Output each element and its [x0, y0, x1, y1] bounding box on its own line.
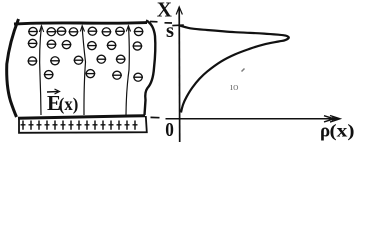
rho axis arrowhead [324, 116, 340, 123]
faint mark apostrophe [242, 69, 245, 72]
arrowhead field line 3 [126, 26, 130, 32]
dash top right of slab [150, 21, 158, 23]
charges row 3 [28, 55, 126, 65]
X axis (vertical) [178, 8, 181, 142]
label E(x) [47, 89, 78, 115]
svg-text:ıο: ıο [230, 81, 239, 93]
dash bottom right of slab [151, 116, 160, 118]
svg-text:s: s [166, 18, 174, 42]
plus strip border [19, 116, 147, 133]
plus charges [21, 121, 138, 130]
dash 2 top near s [165, 22, 173, 24]
charges row 2 [28, 39, 143, 50]
field line 3 [126, 26, 129, 116]
rho axis (horizontal) [166, 118, 337, 120]
arrowhead field line 2 [80, 26, 84, 32]
svg-text:0: 0 [165, 119, 174, 141]
slab right edge [145, 21, 156, 116]
slab left edge [7, 19, 19, 117]
slab top edge [14, 23, 147, 24]
svg-text:(x): (x) [330, 121, 355, 141]
charges row 4 [44, 70, 143, 82]
curve rho of x [180, 26, 289, 113]
slab bottom edge [18, 116, 145, 119]
X axis arrowhead [176, 7, 182, 15]
charges row 1 [28, 27, 143, 36]
svg-text:(x): (x) [59, 94, 79, 114]
tick s level [172, 24, 184, 27]
arrowhead field line 1 [39, 26, 43, 32]
field line 1 [40, 26, 42, 116]
field line 2 [82, 26, 86, 116]
